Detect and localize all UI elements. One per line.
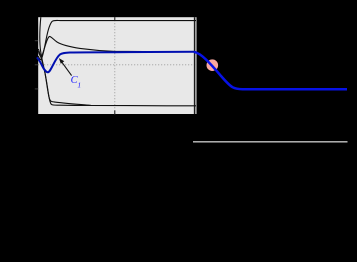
top tick	[114, 17, 116, 21]
left tick y=88.9	[35, 88, 38, 90]
bottom tick	[114, 110, 116, 114]
pink ball	[207, 59, 219, 71]
second black diving trajectory	[38, 49, 91, 106]
black trajectory rising to upper plateau	[38, 20, 196, 59]
black trajectory with overshoot peak decaying to middle	[38, 36, 196, 56]
plot panel background	[38, 17, 196, 114]
svg-text:1: 1	[77, 81, 81, 90]
horizontal dotted gridline	[38, 64, 196, 66]
arrow to blue curve	[62, 62, 72, 76]
right spine	[194, 17, 196, 114]
left tick y=40.7	[35, 40, 38, 42]
vertical dotted gridline	[114, 17, 116, 114]
blue trajectory C1 inside plot	[37, 52, 194, 73]
left tick y=64.8	[35, 64, 38, 66]
black trajectory diving from top-left to lower plateau	[40, 17, 196, 106]
arrowhead	[59, 58, 64, 64]
separator line	[193, 141, 348, 143]
blue curve continuation outside plot	[194, 52, 347, 89]
